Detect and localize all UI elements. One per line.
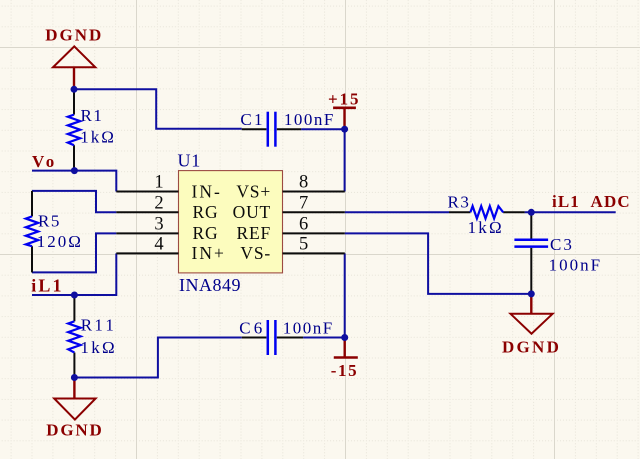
- wire net iL1: [32, 253, 116, 295]
- svg-text:8: 8: [299, 173, 308, 193]
- net label iL1: [31, 276, 63, 296]
- svg-text:IN+: IN+: [192, 243, 226, 263]
- junction at +15: [341, 126, 348, 133]
- wire R5 bottom loop to pin 3: [32, 233, 116, 272]
- svg-text:INA849: INA849: [179, 275, 241, 295]
- svg-text:-15: -15: [331, 361, 358, 380]
- svg-text:R5: R5: [38, 212, 61, 231]
- U1 pin 8: [236, 173, 344, 202]
- U1 pin 6: [237, 214, 345, 243]
- svg-text:C6: C6: [239, 319, 265, 338]
- svg-text:1kΩ: 1kΩ: [80, 338, 117, 357]
- svg-text:OUT: OUT: [233, 202, 271, 222]
- net label Vo: [32, 152, 56, 171]
- svg-text:U1: U1: [178, 150, 202, 170]
- junction at -15: [341, 334, 348, 341]
- U1 pin 5: [240, 234, 344, 263]
- svg-text:iL1 ADC: iL1 ADC: [552, 192, 631, 211]
- svg-text:+15: +15: [328, 89, 360, 108]
- U1 pin 3: [116, 214, 218, 243]
- U1 pin 4: [116, 234, 226, 263]
- svg-text:iL1: iL1: [31, 276, 63, 296]
- wire C6 to -15 and pin 5: [303, 253, 345, 337]
- svg-text:RG: RG: [193, 223, 219, 243]
- svg-text:7: 7: [299, 193, 308, 213]
- svg-text:C3: C3: [550, 235, 574, 254]
- svg-text:120Ω: 120Ω: [37, 232, 83, 251]
- capacitor C6: [239, 319, 334, 355]
- ground DGND right: [502, 294, 561, 356]
- junction at C3 bottom: [528, 290, 535, 297]
- svg-text:R3: R3: [448, 193, 471, 212]
- svg-text:100nF: 100nF: [284, 110, 335, 129]
- svg-text:R1: R1: [81, 106, 104, 125]
- svg-text:1kΩ: 1kΩ: [80, 128, 116, 147]
- capacitor C1: [240, 110, 334, 147]
- svg-text:DGND: DGND: [46, 420, 103, 439]
- svg-text:Vo: Vo: [32, 152, 56, 171]
- junction at R11 bottom: [71, 374, 78, 381]
- junction at R3 out: [528, 209, 535, 216]
- svg-text:R11: R11: [81, 315, 117, 334]
- wire R5 top loop to pin 2: [32, 191, 116, 212]
- resistor R3: [448, 193, 525, 237]
- svg-text:DGND: DGND: [502, 337, 561, 356]
- ground DGND top-left: [45, 26, 103, 90]
- svg-text:REF: REF: [237, 223, 272, 243]
- svg-text:1kΩ: 1kΩ: [468, 218, 504, 237]
- svg-text:DGND: DGND: [45, 26, 103, 45]
- wire net DGND top: [74, 89, 242, 129]
- svg-text:4: 4: [154, 234, 163, 254]
- wire R3 to iL1 ADC: [525, 211, 616, 213]
- resistor R11: [68, 295, 117, 378]
- resistor R5: [26, 191, 83, 273]
- ground DGND bottom-left: [46, 378, 103, 440]
- wire R11 bottom to C6: [74, 338, 241, 378]
- junction at iL1: [71, 292, 78, 299]
- svg-text:100nF: 100nF: [283, 319, 334, 338]
- power port -15: [331, 338, 358, 380]
- svg-text:C1: C1: [240, 110, 264, 129]
- svg-text:2: 2: [154, 193, 163, 213]
- U1 pin 7: [233, 193, 345, 222]
- wire C1 to +15 and pin 8: [301, 129, 345, 191]
- op-amp U1 INA849 body: [178, 150, 283, 294]
- svg-text:VS-: VS-: [240, 243, 271, 263]
- wire OUT pin 7 to R3: [345, 211, 449, 213]
- svg-text:100nF: 100nF: [549, 256, 602, 275]
- svg-text:RG: RG: [193, 202, 219, 222]
- svg-text:5: 5: [299, 234, 308, 254]
- U1 pin 1: [116, 173, 221, 202]
- resistor R1: [68, 89, 116, 170]
- svg-text:1: 1: [154, 173, 163, 193]
- U1 pin 2: [116, 193, 218, 222]
- net label iL1 ADC: [552, 192, 631, 211]
- wire net Vo: [32, 171, 116, 192]
- wire REF pin 6 to C3 bottom: [345, 233, 532, 294]
- power port +15: [328, 89, 360, 129]
- svg-text:IN-: IN-: [192, 181, 222, 201]
- junction at Vo: [71, 167, 78, 174]
- capacitor C3: [514, 212, 602, 294]
- junction at R1 top: [71, 86, 78, 93]
- svg-text:VS+: VS+: [236, 181, 271, 201]
- svg-text:6: 6: [299, 214, 308, 234]
- svg-text:3: 3: [154, 214, 163, 234]
